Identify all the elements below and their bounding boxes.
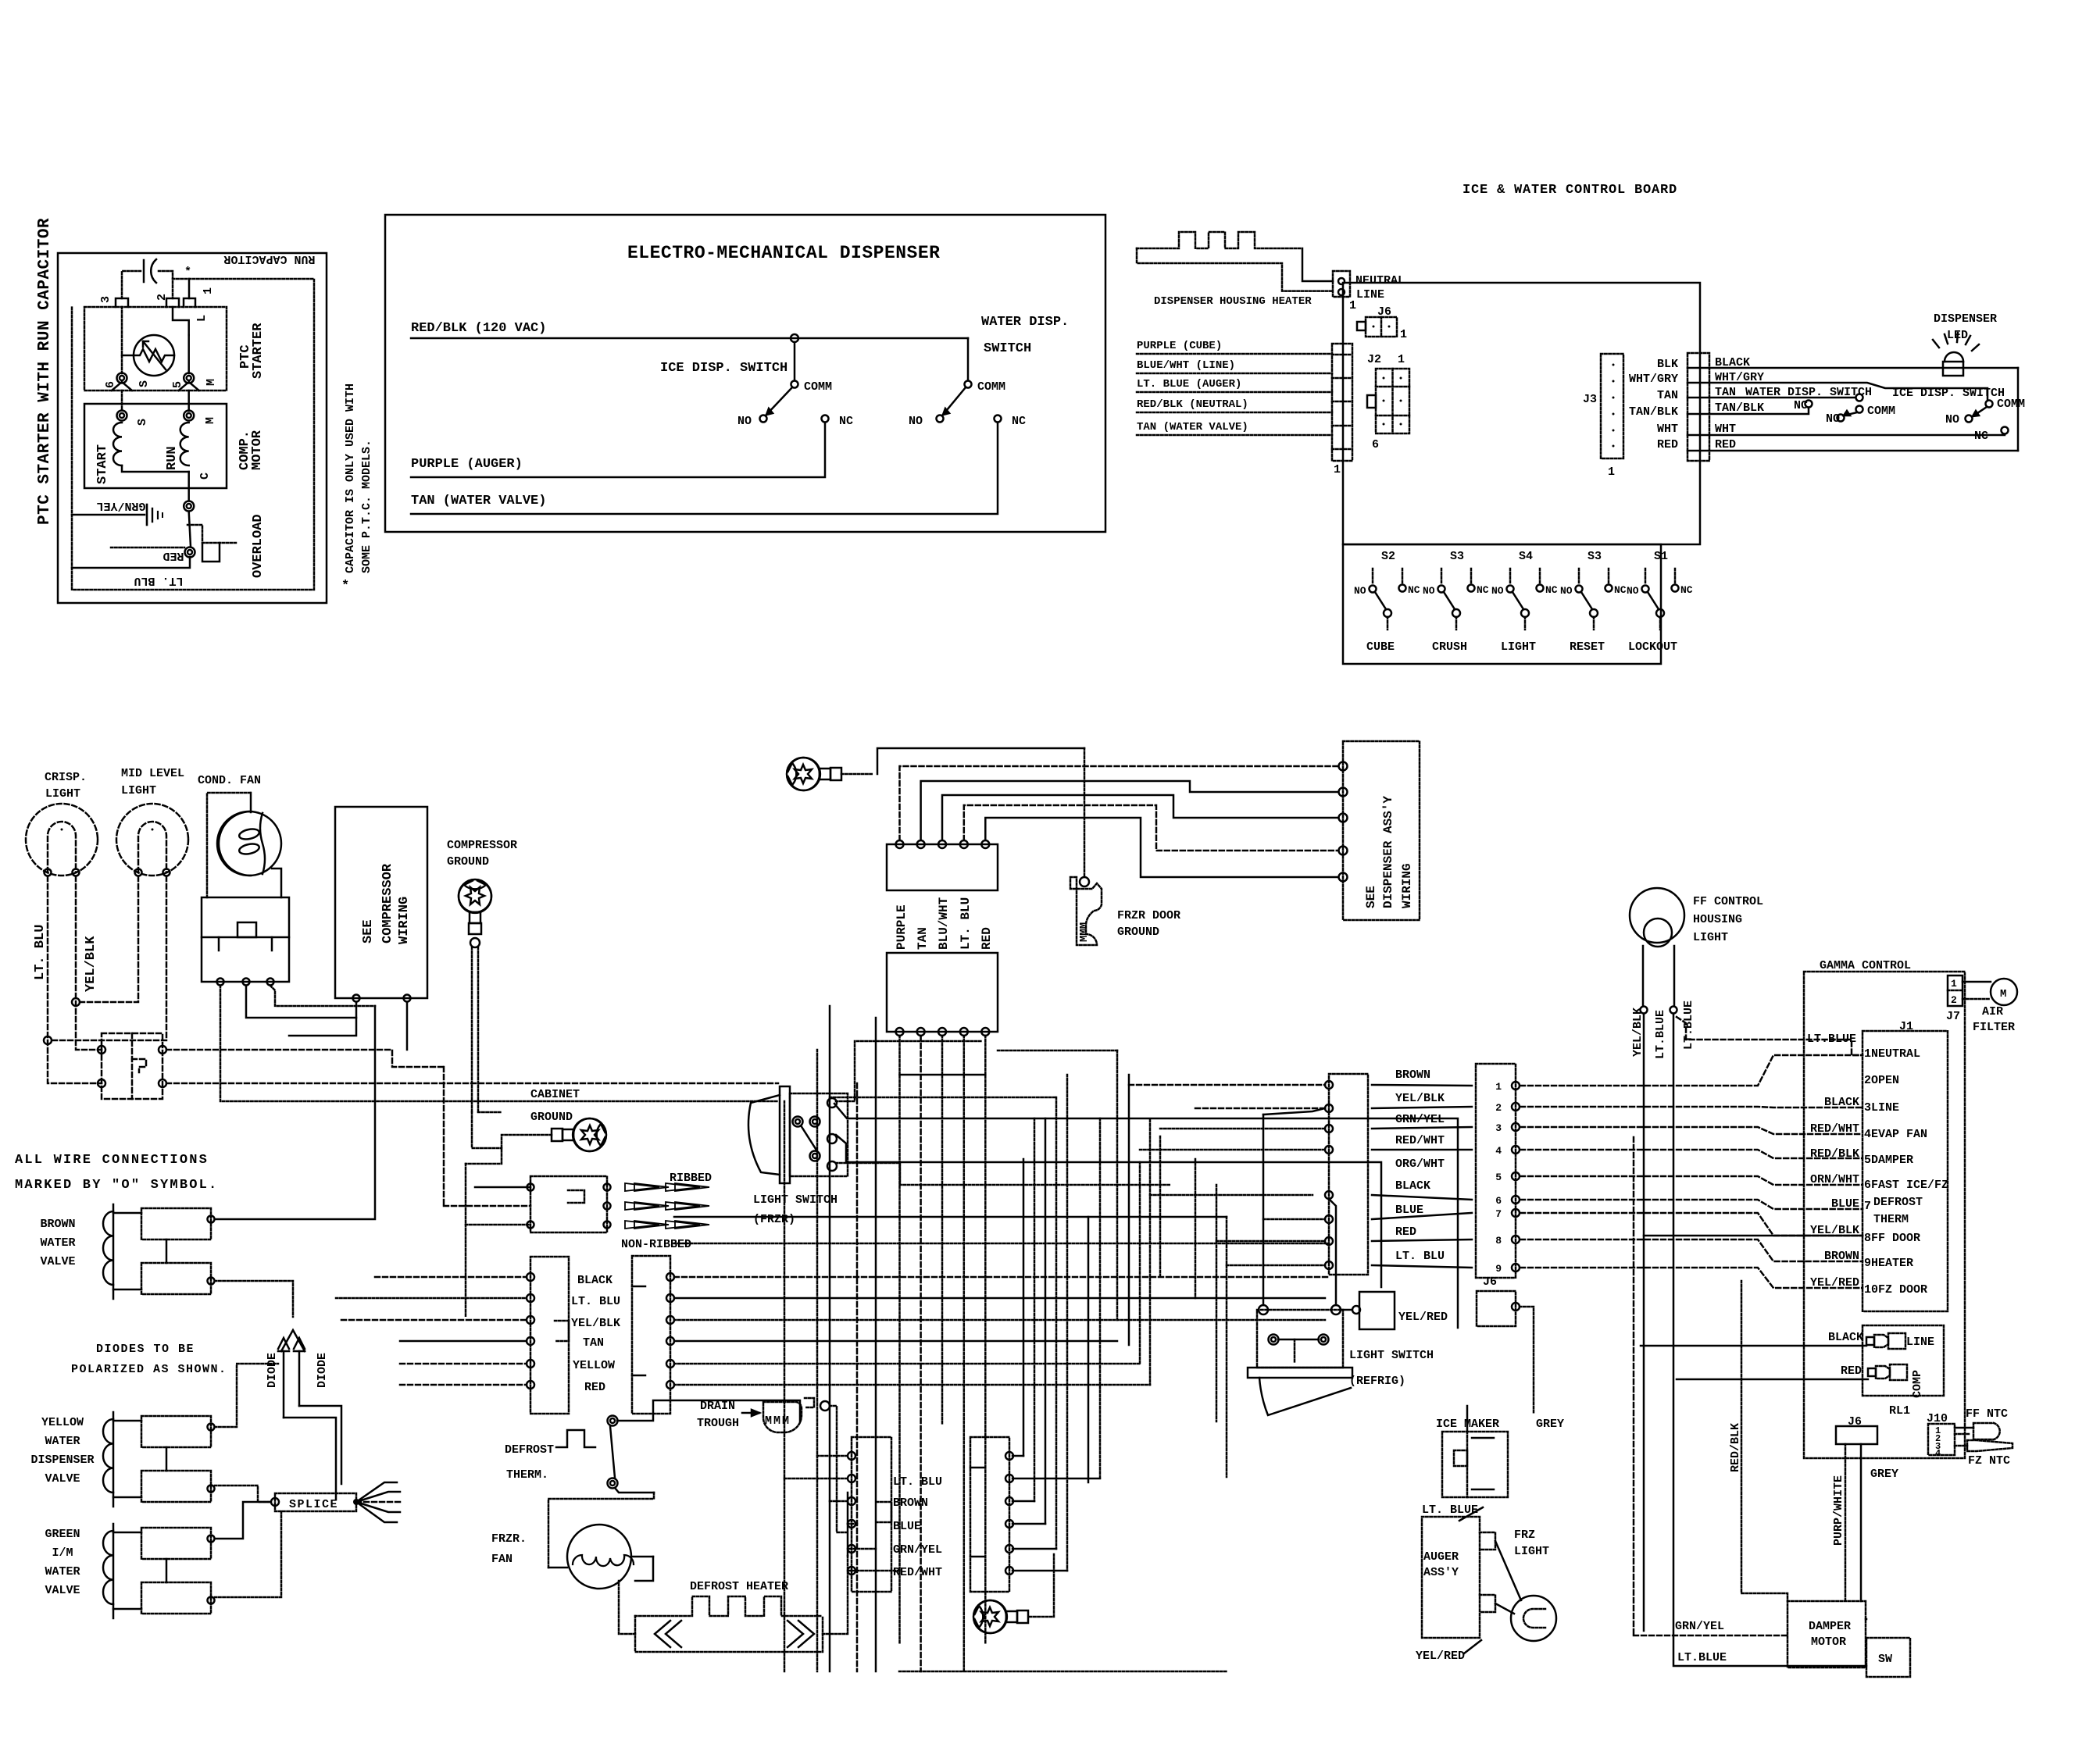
right 6-pin column (632, 1256, 670, 1414)
defrost therm step line (556, 1430, 595, 1447)
LT BLU wire (72, 557, 190, 568)
svg-text:CRISP.: CRISP. (45, 771, 87, 784)
switch LOCKOUT lever (1648, 592, 1659, 609)
svg-text:MMM: MMM (1078, 922, 1091, 942)
svg-text:DISPENSER: DISPENSER (1934, 312, 1997, 326)
svg-text:RED: RED (1841, 1364, 1862, 1378)
switch CRUSH leads (1441, 569, 1443, 583)
wire crisp right down (76, 876, 102, 1050)
wires into left column (375, 1276, 527, 1279)
ice disp switch NO (board) (1966, 416, 1973, 423)
svg-text:BLACK: BLACK (577, 1274, 612, 1287)
svg-text:1: 1 (1495, 1081, 1502, 1093)
svg-text:NO: NO (1945, 413, 1959, 426)
svg-text:SOME P.T.C. MODELS.: SOME P.T.C. MODELS. (360, 440, 373, 573)
svg-text:CRUSH: CRUSH (1432, 640, 1467, 654)
PTC starter box (84, 307, 227, 391)
switch RESET common (1590, 609, 1598, 617)
svg-text:1: 1 (1349, 299, 1356, 312)
water disp switch (board) COMM (1856, 406, 1863, 413)
door ground lug (787, 758, 841, 790)
svg-text:2OPEN: 2OPEN (1864, 1074, 1899, 1087)
J10 connector (1928, 1424, 1955, 1455)
water switch NC (995, 416, 1002, 423)
wire green valve top (215, 1502, 270, 1539)
switch CRUSH common (1452, 609, 1460, 617)
svg-text:LIGHT: LIGHT (121, 784, 156, 797)
svg-text:MOTOR: MOTOR (1811, 1635, 1846, 1649)
svg-text:FZ NTC: FZ NTC (1968, 1454, 2010, 1468)
cond fan enclosure dashed (207, 793, 251, 897)
connector2 to J1 harness wires (1520, 1055, 1862, 1086)
svg-text:6: 6 (1372, 438, 1379, 451)
connector J2 box (1376, 369, 1409, 433)
harness wires to icemaker connector (1129, 1084, 1325, 1086)
heater wire to NEUTRAL (1302, 248, 1333, 281)
svg-text:J7: J7 (1946, 1010, 1960, 1023)
svg-text:NON-RIBBED: NON-RIBBED (621, 1238, 691, 1251)
svg-text:NC: NC (1408, 584, 1420, 596)
svg-text:LINE: LINE (1906, 1336, 1934, 1349)
cabinet ground lug shape (552, 1118, 606, 1151)
crisp light terminals (45, 869, 52, 876)
svg-text:SW: SW (1878, 1653, 1892, 1666)
wire relay t3 down (270, 986, 375, 1006)
right loop edge (2017, 368, 2020, 451)
relay terminals (217, 979, 224, 986)
switch CUBE NC (1399, 585, 1406, 592)
svg-text:COMPRESSOR: COMPRESSOR (447, 839, 517, 852)
cabinet ground wire (466, 1135, 552, 1164)
svg-text:HOUSING: HOUSING (1693, 913, 1742, 926)
svg-text:I/M: I/M (52, 1546, 73, 1560)
right output connector strip (1687, 353, 1709, 461)
light switch REFRIG inner (1294, 1339, 1296, 1363)
svg-text:PURPLE (AUGER): PURPLE (AUGER) (411, 457, 523, 472)
crisp light bulb (26, 804, 98, 876)
wire red/blk neutral (1137, 412, 1332, 414)
connector J3 (1601, 354, 1623, 458)
svg-text:SWITCH: SWITCH (984, 341, 1031, 356)
terminal bump 3 (116, 298, 128, 307)
water switch NO (937, 416, 944, 423)
svg-text:THERM: THERM (1873, 1213, 1909, 1226)
mid level light bulb (116, 804, 188, 876)
wire S dashed to motor (121, 391, 123, 411)
svg-text:DAMPER: DAMPER (1809, 1620, 1851, 1633)
frz light bulb (1511, 1596, 1556, 1641)
valve coil (103, 1211, 113, 1285)
svg-text:FF CONTROL: FF CONTROL (1693, 895, 1763, 908)
column B terminals (1005, 1452, 1013, 1460)
valve lower winding box (141, 1582, 211, 1614)
heater left wire (619, 1581, 635, 1634)
wire brown valve bottom (dashed) (215, 1281, 293, 1317)
wire red to dispenser assy (985, 818, 1338, 877)
svg-text:LT. BLU: LT. BLU (1395, 1250, 1445, 1263)
svg-text:J3: J3 (1583, 393, 1597, 406)
svg-text:LIGHT SWITCH: LIGHT SWITCH (753, 1193, 837, 1207)
svg-text:10FZ DOOR: 10FZ DOOR (1864, 1283, 1927, 1297)
svg-text:FF NTC: FF NTC (1966, 1407, 2008, 1421)
svg-text:5DAMPER: 5DAMPER (1864, 1154, 1913, 1167)
svg-text:WATER: WATER (45, 1435, 80, 1448)
svg-text:DEFROST: DEFROST (505, 1443, 554, 1457)
lower door ground lug (973, 1600, 1028, 1633)
svg-text:ELECTRO-MECHANICAL DISPENSER: ELECTRO-MECHANICAL DISPENSER (627, 243, 940, 263)
motor terminal M (184, 411, 194, 421)
FZ NTC probe (1967, 1440, 2012, 1451)
svg-text:3LINE: 3LINE (1864, 1101, 1899, 1115)
svg-text:LT.BLUE: LT.BLUE (1654, 1010, 1667, 1059)
wire diode D2 bottom (299, 1406, 341, 1484)
compressor motor box (84, 404, 227, 488)
switch CRUSH NC (1468, 585, 1475, 592)
svg-text:S3: S3 (1450, 550, 1464, 563)
svg-text:PTC STARTER WITH RUN CAPACITOR: PTC STARTER WITH RUN CAPACITOR (36, 218, 54, 525)
harness wires connector1 to connector2 (1372, 1085, 1472, 1086)
wire compressor t2 (406, 1002, 409, 1050)
svg-text:PURP/WHITE: PURP/WHITE (1832, 1475, 1845, 1546)
light switch REFRIG plate (1248, 1368, 1352, 1378)
svg-text:BLU/WHT: BLU/WHT (937, 897, 951, 950)
svg-text:YEL/BLK: YEL/BLK (84, 936, 98, 992)
svg-text:LIGHT: LIGHT (45, 787, 80, 801)
water disp switch NO (board) (1837, 415, 1845, 422)
svg-text:FILTER: FILTER (1973, 1021, 2015, 1034)
mid level light terminals (135, 869, 142, 876)
terminal bump 2 (166, 298, 179, 307)
block2 wires down (898, 1035, 901, 1037)
switch RESET leads (1578, 569, 1580, 583)
svg-text:GAMMA CONTROL: GAMMA CONTROL (1820, 959, 1911, 972)
svg-text:RED/WHT: RED/WHT (1395, 1134, 1445, 1147)
svg-text:WATER DISP.: WATER DISP. (981, 315, 1069, 330)
svg-text:2: 2 (155, 294, 169, 301)
svg-text:GROUND: GROUND (530, 1111, 573, 1124)
wire switch TR dashed right (166, 1050, 444, 1067)
valve coil (103, 1419, 113, 1493)
wire RED/BLK 120VAC (411, 337, 968, 340)
run capacitor C1 plates (143, 260, 145, 282)
svg-text:GROUND: GROUND (1117, 926, 1159, 939)
see compressor wiring box (335, 807, 427, 998)
svg-text:FRZR.: FRZR. (491, 1532, 527, 1546)
svg-text:COND. FAN: COND. FAN (198, 774, 261, 787)
AUGER ASSY box (1422, 1517, 1480, 1638)
wire red comp (1677, 1379, 1868, 1381)
svg-text:RUN CAPACITOR: RUN CAPACITOR (223, 252, 315, 266)
valve link (166, 1447, 168, 1471)
light switch REFRIG box (1257, 1310, 1343, 1368)
svg-text:NO: NO (1491, 585, 1504, 597)
svg-text:LT.BLUE: LT.BLUE (1807, 1033, 1856, 1046)
svg-text:5: 5 (171, 381, 184, 388)
svg-text:BLK: BLK (1657, 358, 1678, 371)
line fuse symbol (1866, 1337, 1874, 1345)
wire purple to dispenser assy (900, 766, 1339, 840)
svg-text:4EVAP FAN: 4EVAP FAN (1864, 1128, 1927, 1141)
FF control housing light (1630, 888, 1684, 943)
heater right wire (823, 1556, 848, 1634)
svg-text:TAN: TAN (916, 927, 930, 950)
overload bimetal link (189, 512, 191, 547)
svg-text:8FF DOOR: 8FF DOOR (1864, 1232, 1920, 1245)
svg-text:DISPENSER HOUSING HEATER: DISPENSER HOUSING HEATER (1154, 295, 1312, 308)
light switch FRZR bracket (780, 1086, 790, 1183)
svg-text:NC: NC (1477, 584, 1489, 596)
column A (6-pin) (852, 1437, 891, 1592)
svg-text:SEE: SEE (361, 919, 376, 943)
left column terminals (527, 1273, 534, 1281)
switch RESET lever (1581, 592, 1592, 609)
LINE/COMP connector box (1862, 1325, 1944, 1396)
svg-text:1NEUTRAL: 1NEUTRAL (1864, 1047, 1920, 1061)
switch strip box (1343, 544, 1661, 664)
valve upper winding box (141, 1208, 211, 1239)
svg-text:S: S (137, 380, 151, 387)
wires into ribbed connector (475, 1186, 530, 1189)
frz light wires (1495, 1541, 1521, 1600)
light switch refrig wires (1262, 1115, 1265, 1305)
wire start to common (122, 465, 189, 472)
water disp switch (board) top circle (1856, 394, 1863, 401)
svg-text:LOCKOUT: LOCKOUT (1628, 640, 1677, 654)
svg-text:L: L (195, 315, 209, 322)
GAMMA CONTROL box (1804, 972, 1965, 1458)
svg-text:6: 6 (104, 381, 117, 388)
cond fan inner line (260, 813, 265, 874)
wire TAN right (1687, 397, 1855, 399)
upper block terminals (896, 840, 904, 848)
svg-text:MMM: MMM (765, 1414, 791, 1428)
ribbed arrows (625, 1183, 659, 1191)
ribbed connector terminals (604, 1184, 611, 1191)
svg-text:NO: NO (909, 415, 923, 428)
lower block terminals (896, 1028, 904, 1036)
diode arrow big (281, 1330, 305, 1351)
svg-text:RED: RED (162, 549, 184, 562)
connector J6 box (1366, 317, 1397, 337)
column A terminals (848, 1452, 855, 1460)
left input connector strip (1332, 344, 1352, 461)
switch LOCKOUT common (1656, 609, 1664, 617)
wire relay t2 down (246, 986, 356, 1018)
svg-text:BROWN: BROWN (893, 1496, 928, 1510)
svg-text:J6: J6 (1483, 1275, 1497, 1289)
ice disp switch NC (board) (2002, 427, 2009, 434)
J1 connector box (1862, 1031, 1948, 1311)
ribbed connector box (530, 1176, 607, 1232)
svg-text:WIRING: WIRING (397, 897, 412, 944)
svg-text:NC: NC (1794, 399, 1808, 412)
run winding coil (180, 423, 189, 465)
overload step dashed (187, 525, 236, 543)
valve lower winding box (141, 1471, 211, 1502)
terminal bump 1 (184, 298, 195, 307)
svg-text:1: 1 (202, 287, 215, 294)
svg-text:LT.BLUE: LT.BLUE (1677, 1651, 1727, 1664)
wire yel/blk down (1643, 1014, 1645, 1631)
svg-text:(REFRIG): (REFRIG) (1349, 1375, 1405, 1388)
svg-text:*: * (184, 266, 191, 279)
svg-text:GREY: GREY (1870, 1468, 1898, 1481)
svg-text:GRN/YEL: GRN/YEL (96, 499, 145, 512)
defrost therm terminal lower (608, 1478, 618, 1489)
wire compressor t1 (289, 1002, 356, 1036)
start winding coil (113, 423, 122, 465)
wire to water switch COMM (967, 338, 970, 380)
svg-text:BROWN: BROWN (40, 1218, 75, 1231)
compressor ground double wire (471, 947, 473, 1112)
svg-text:LIGHT: LIGHT (1514, 1545, 1549, 1558)
svg-text:2: 2 (1495, 1102, 1502, 1114)
svg-text:START: START (95, 444, 110, 484)
wire PURPLE auger (411, 423, 825, 477)
svg-text:5: 5 (1495, 1172, 1502, 1183)
ice switch NO (760, 416, 767, 423)
light switch REFRIG terminals (1259, 1305, 1268, 1314)
svg-text:DIODES TO BE: DIODES TO BE (96, 1343, 195, 1356)
interior light switch box (102, 1033, 162, 1099)
wire yellow valve top (215, 1364, 278, 1427)
switch LOCKOUT leads (1645, 569, 1647, 583)
svg-text:FRZR DOOR: FRZR DOOR (1117, 909, 1180, 922)
cond fan motor circle (217, 811, 281, 876)
ice switch lever (766, 387, 792, 415)
svg-text:3: 3 (99, 296, 112, 303)
wire green valve bottom (215, 1511, 281, 1597)
svg-text:M: M (204, 417, 217, 424)
compressor ground lug (459, 879, 491, 934)
svg-text:DISPENSER: DISPENSER (30, 1453, 94, 1467)
switch LIGHT common (1521, 609, 1529, 617)
svg-text:THERM.: THERM. (506, 1468, 548, 1482)
svg-text:TAN: TAN (1657, 389, 1678, 402)
contact marks 6 (112, 382, 122, 391)
water switch lever (943, 387, 966, 415)
compressor ground terminal (470, 938, 480, 947)
defrost therm terminal upper (608, 1416, 618, 1426)
svg-text:BLUE: BLUE (1395, 1204, 1423, 1217)
PTC resistor zigzag (134, 349, 174, 362)
svg-text:ICE DISP. SWITCH: ICE DISP. SWITCH (660, 361, 787, 376)
svg-text:RED: RED (584, 1381, 605, 1394)
svg-text:4: 4 (1935, 1448, 1941, 1459)
svg-text:LT. BLU: LT. BLU (33, 925, 48, 980)
svg-text:RED: RED (1657, 438, 1678, 451)
switch CRUSH lever (1444, 592, 1455, 609)
svg-text:YEL/BLK: YEL/BLK (1631, 1008, 1645, 1057)
defrost therm wires (617, 1400, 800, 1421)
svg-text:PURPLE (CUBE): PURPLE (CUBE) (1137, 340, 1222, 352)
svg-text:AUGER: AUGER (1423, 1550, 1459, 1564)
svg-text:BLACK: BLACK (1828, 1331, 1863, 1344)
wire TAN water valve (411, 423, 998, 514)
svg-text:1: 1 (1398, 353, 1405, 366)
frzr fan enclosure (548, 1493, 654, 1568)
svg-text:RESET: RESET (1570, 640, 1605, 654)
svg-text:VALVE: VALVE (45, 1584, 80, 1597)
wire switch BR dashed right (166, 1083, 778, 1085)
svg-text:LT.BLUE: LT.BLUE (1682, 1000, 1695, 1050)
svg-text:S1: S1 (1654, 550, 1668, 563)
splice left terminal (271, 1498, 279, 1506)
svg-text:RUN: RUN (165, 446, 180, 470)
drain trough terminal (820, 1401, 830, 1411)
svg-text:MID LEVEL: MID LEVEL (121, 767, 184, 780)
light switch FRZR pivots (793, 1117, 803, 1127)
svg-text:NC: NC (1680, 584, 1693, 596)
svg-text:SPLICE: SPLICE (289, 1498, 338, 1511)
switch CUBE leads (1372, 569, 1374, 583)
valve terminals (208, 1424, 215, 1431)
damper motor box (1787, 1601, 1866, 1667)
wire PTC right down (187, 335, 190, 373)
wire diode D1 bottom (284, 1418, 336, 1500)
svg-text:POLARIZED AS SHOWN.: POLARIZED AS SHOWN. (71, 1363, 227, 1376)
electro-mechanical dispenser box (385, 215, 1105, 532)
svg-text:TAN (WATER VALVE): TAN (WATER VALVE) (411, 494, 546, 508)
svg-text:1: 1 (1334, 463, 1341, 476)
compressor ground wire bend (472, 1112, 502, 1148)
wire M to motor (187, 391, 190, 411)
J7 connector (1948, 976, 1962, 1006)
svg-text:NO: NO (1627, 585, 1639, 597)
ice disp switch COMM (board) (1986, 401, 1993, 408)
svg-text:S2: S2 (1381, 550, 1395, 563)
PTC resistor circle (134, 335, 174, 376)
junction overload (185, 548, 195, 558)
svg-text:GRN/YEL: GRN/YEL (1675, 1620, 1724, 1633)
J6 wire (1520, 1307, 1534, 1414)
cond fan coil leaves (238, 827, 260, 840)
svg-text:GREY: GREY (1536, 1418, 1564, 1431)
svg-text:TAN: TAN (583, 1336, 604, 1350)
svg-text:NO: NO (1826, 412, 1840, 426)
left 6-pin column (530, 1257, 569, 1414)
wire red/blk vertical (1741, 1281, 1787, 1601)
frzr door ground strap (1070, 877, 1102, 945)
wire tan to dispenser assy (921, 781, 1338, 840)
svg-text:RED: RED (1715, 438, 1736, 451)
svg-text:DISPENSER ASS'Y: DISPENSER ASS'Y (1381, 796, 1395, 908)
defrost heater element (635, 1596, 823, 1616)
svg-text:RED/BLK (NEUTRAL): RED/BLK (NEUTRAL) (1137, 398, 1248, 411)
wire brown valve top (215, 1006, 375, 1219)
splice box (275, 1493, 356, 1511)
svg-text:GROUND: GROUND (447, 855, 489, 869)
svg-text:NO: NO (737, 415, 752, 428)
svg-text:LIGHT SWITCH: LIGHT SWITCH (1349, 1349, 1434, 1362)
PTC block outer box (58, 253, 327, 603)
svg-text:NC: NC (1545, 584, 1558, 596)
wire lt blu to dispenser assy (964, 805, 1338, 851)
wire PTC left (122, 355, 134, 357)
damper to SW link (1866, 1618, 1866, 1621)
capacitor wire left (122, 271, 141, 298)
svg-text:MARKED BY "O" SYMBOL.: MARKED BY "O" SYMBOL. (15, 1178, 218, 1193)
svg-text:RED: RED (1395, 1225, 1416, 1239)
svg-text:STARTER: STARTER (251, 323, 266, 379)
wire grn/yel damper (1634, 1635, 1787, 1637)
junction yel/blk (72, 998, 80, 1006)
svg-text:BLUE: BLUE (893, 1520, 921, 1533)
svg-text:COMPRESSOR: COMPRESSOR (380, 863, 395, 943)
motor terminal S (117, 411, 127, 421)
svg-text:NC: NC (1974, 430, 1988, 443)
svg-text:WATER: WATER (45, 1565, 80, 1578)
